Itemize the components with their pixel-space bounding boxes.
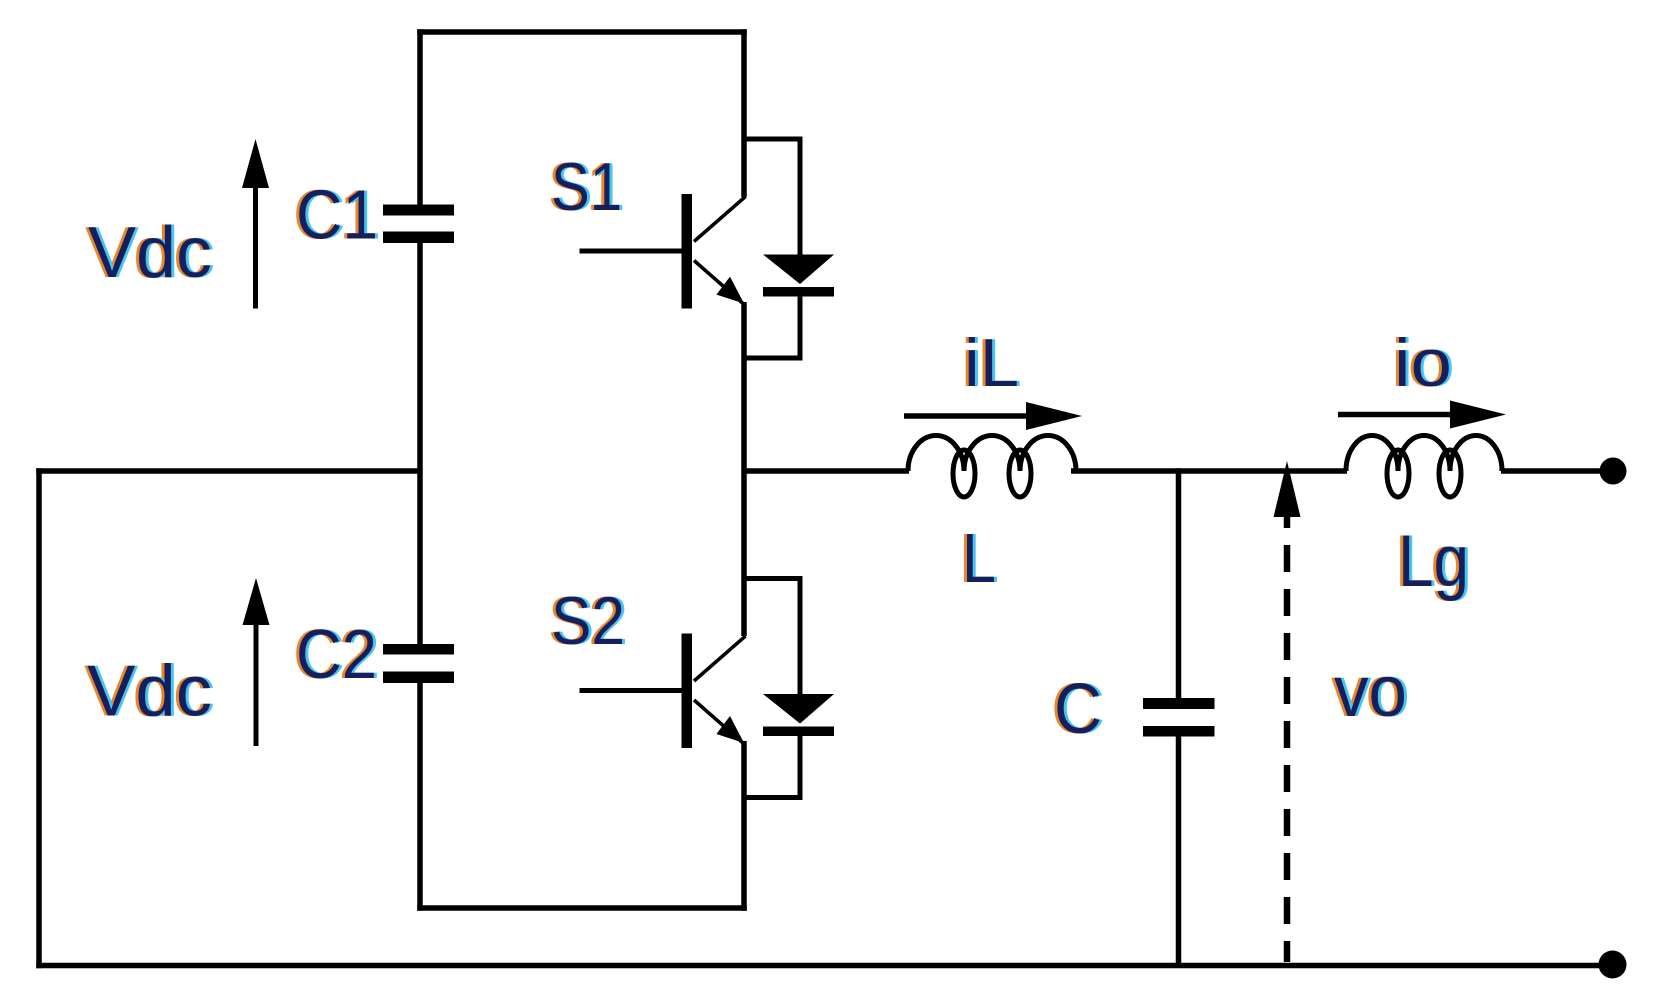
svg-text:C1: C1 xyxy=(296,176,378,254)
svg-text:S2: S2 xyxy=(551,583,625,659)
svg-text:L: L xyxy=(962,519,996,597)
svg-text:S1: S1 xyxy=(551,149,622,225)
svg-text:Vdc: Vdc xyxy=(88,213,212,293)
svg-text:Lg: Lg xyxy=(1398,521,1469,602)
svg-text:iL: iL xyxy=(964,325,1019,401)
svg-text:vo: vo xyxy=(1334,652,1407,732)
svg-text:C: C xyxy=(1054,670,1102,749)
svg-text:Vdc: Vdc xyxy=(87,652,212,732)
svg-text:C2: C2 xyxy=(296,615,377,693)
svg-text:io: io xyxy=(1394,325,1452,401)
